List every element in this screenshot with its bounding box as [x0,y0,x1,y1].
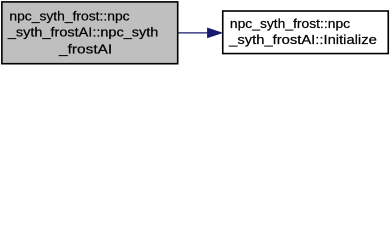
svg-text:_syth_frostAI::npc_syth: _syth_frostAI::npc_syth [7,24,158,39]
svg-text:npc_syth_frost::npc: npc_syth_frost::npc [230,16,351,31]
svg-text:_frostAI: _frostAI [58,42,112,57]
edge wire (call arrow shaft) [179,32,210,34]
node npc_syth_frost::npc_syth_frostAI::npc_syth_frostAI (current, grey) [2,2,178,64]
svg-text:npc_syth_frost::npc: npc_syth_frost::npc [9,8,130,23]
node npc_syth_frost::npc_syth_frostAI::Initialize (white) [223,11,389,54]
svg-text:_syth_frostAI::Initialize: _syth_frostAI::Initialize [228,32,377,47]
edge arrowhead [208,28,222,37]
